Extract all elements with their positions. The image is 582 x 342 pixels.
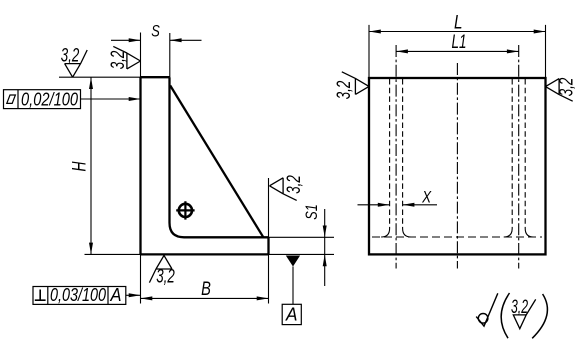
flatness tolerance frame — [4, 90, 81, 109]
inner contour with fillet — [170, 77, 269, 237]
roughness 3,2 top-left — [65, 50, 88, 77]
dimension X — [358, 203, 438, 207]
crosshair hole mark — [176, 201, 194, 219]
datum A triangle — [286, 256, 300, 267]
roughness 3,2 right end — [270, 178, 297, 201]
svg-text:3,2: 3,2 — [61, 46, 80, 67]
svg-text:0,02/100: 0,02/100 — [21, 89, 79, 110]
svg-text:A: A — [285, 304, 297, 325]
svg-text:H: H — [70, 161, 91, 171]
dimension L1 — [396, 49, 519, 53]
open parenthesis — [501, 293, 509, 338]
general roughness note: basic symbol with circle — [476, 293, 498, 326]
svg-text:L1: L1 — [452, 32, 467, 53]
perpendicularity frame — [33, 287, 126, 305]
svg-text:S: S — [151, 22, 160, 41]
flatness symbol — [7, 95, 16, 103]
centerline left slot — [395, 45, 397, 269]
datum A stem — [292, 267, 294, 305]
gusset diagonal — [170, 86, 263, 238]
dimension B — [141, 254, 269, 303]
flatness leader — [81, 97, 141, 101]
perpendicular symbol — [35, 290, 46, 301]
svg-text:B: B — [201, 279, 211, 300]
svg-text:X: X — [421, 188, 431, 207]
hidden slot lines left — [381, 79, 411, 237]
dimension S1 — [269, 209, 335, 286]
svg-text:3,2: 3,2 — [334, 80, 355, 99]
roughness 3,2 right view right — [546, 79, 573, 102]
svg-text:3,2: 3,2 — [284, 175, 305, 194]
extension line bottom face — [85, 253, 141, 255]
svg-text:3,2: 3,2 — [108, 50, 129, 69]
svg-text:A: A — [110, 284, 122, 305]
right view outline — [369, 78, 546, 254]
hidden slot lines right — [504, 79, 534, 237]
extension line top face — [59, 76, 141, 78]
svg-text:S1: S1 — [302, 204, 321, 220]
datum A box — [282, 304, 301, 324]
centerline right slot — [518, 45, 520, 269]
svg-text:0,03/100: 0,03/100 — [50, 284, 107, 305]
dimension S — [111, 33, 202, 78]
left view outline — [141, 77, 269, 254]
svg-text:3,2: 3,2 — [156, 267, 175, 288]
centerline middle — [456, 63, 458, 269]
hidden inner face line — [372, 236, 542, 238]
roughness 3,2 left face — [113, 46, 140, 69]
svg-text:L: L — [454, 12, 463, 33]
svg-text:3,2: 3,2 — [557, 77, 578, 96]
perpendicularity leader — [126, 293, 141, 297]
roughness 3,2 bottom face — [149, 255, 172, 282]
roughness 3,2 right view left — [342, 72, 369, 95]
extension line right end face up — [268, 178, 270, 237]
dimension H — [89, 77, 93, 254]
machining triangle in note — [513, 299, 535, 328]
close parenthesis — [532, 294, 547, 338]
dimension L — [369, 25, 546, 77]
